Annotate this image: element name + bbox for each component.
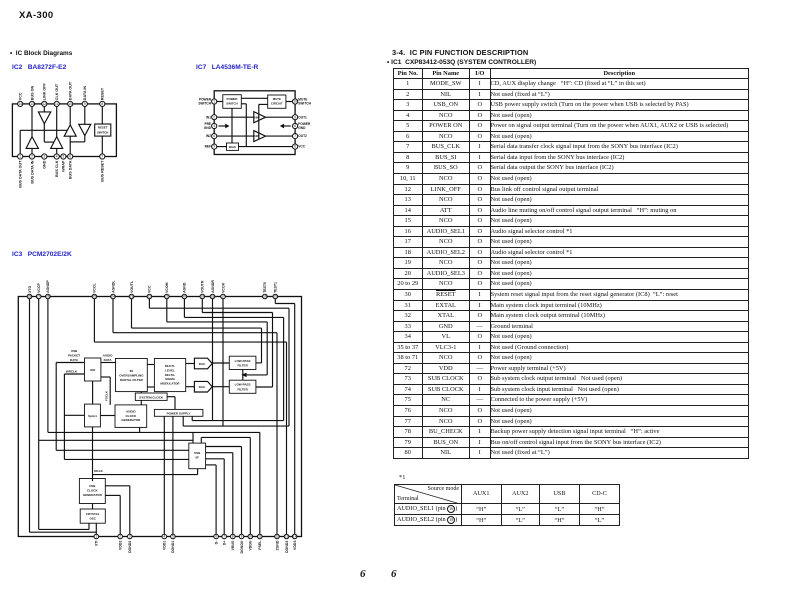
svg-text:18: 18: [211, 295, 215, 299]
svg-text:LOW-PASS: LOW-PASS: [235, 359, 251, 363]
svg-text:AUDIO: AUDIO: [126, 409, 136, 413]
svg-text:CLK OUT: CLK OUT: [55, 83, 59, 100]
svg-text:DIGITAL FILTER: DIGITAL FILTER: [120, 378, 144, 382]
wire to pin VDD2: [119, 495, 121, 536]
svg-text:AGNDL: AGNDL: [111, 280, 115, 293]
wire USB IF out 3: [206, 458, 225, 460]
IC2 pin 13 (BUS ON): [29, 101, 34, 106]
IC3 pin 5 (DGND1): [171, 534, 176, 539]
svg-text:VOUTR: VOUTR: [201, 280, 205, 293]
wire power switch to mute circuit: [241, 97, 267, 99]
wire SIO audio data to filter: [101, 362, 116, 364]
wire buffer C to pin 6: [69, 136, 71, 156]
svg-text:DGND3: DGND3: [285, 541, 289, 553]
svg-text:SWITCH: SWITCH: [226, 102, 237, 106]
low-pass filter 2 block: [229, 380, 256, 393]
IC3 pin 16 (TEST0): [263, 294, 268, 299]
svg-text:15: 15: [274, 295, 278, 299]
wire pin12 LINK OFF to inverter: [43, 104, 45, 112]
svg-text:I/F: I/F: [195, 455, 199, 459]
svg-text:PACKET: PACKET: [68, 353, 80, 357]
svg-text:6: 6: [294, 145, 296, 149]
svg-text:12: 12: [275, 535, 279, 539]
svg-text:8X: 8X: [130, 369, 134, 373]
svg-text:VCC: VCC: [148, 285, 152, 293]
wire SpAct to USB clock gen: [92, 427, 94, 481]
buffer D (down) pin 9: [79, 124, 91, 135]
svg-text:14: 14: [293, 535, 297, 539]
svg-text:RESET: RESET: [98, 126, 108, 130]
wire USB IF out 4: [206, 464, 217, 466]
wire VCCR drop to power supply net: [222, 297, 224, 427]
wire USB clock gen out B: [105, 494, 120, 496]
svg-text:2: 2: [31, 155, 33, 159]
wire SIO to SpAct: [92, 381, 94, 404]
wire VOUTL vertical: [261, 328, 263, 363]
buffer C (up) pins 10/6: [64, 125, 76, 136]
svg-text:WRAP: WRAP: [62, 160, 66, 172]
audio clock generator block: [115, 405, 147, 428]
IC2 pin 3 (GND): [42, 154, 47, 159]
wire MCLK run: [93, 474, 198, 476]
IC3 pin 8 (VBUS): [231, 534, 236, 539]
svg-text:DGND2: DGND2: [128, 541, 132, 553]
svg-text:POWER SUPPLY: POWER SUPPLY: [167, 412, 191, 416]
wire power switch to bias: [231, 108, 233, 143]
svg-text:CIRCUIT: CIRCUIT: [271, 102, 283, 106]
svg-text:FSCLK: FSCLK: [105, 390, 109, 401]
wire buffer A to pin 2: [31, 148, 33, 156]
IC3 pin 7 (D+): [222, 534, 227, 539]
wire to pin DGNDU: [241, 447, 243, 537]
crystal osc block: [80, 509, 105, 523]
wire system clock to power supply run: [167, 396, 175, 398]
wire USB IF top stub A: [192, 432, 194, 443]
svg-text:XTI: XTI: [95, 541, 99, 546]
svg-text:D+: D+: [223, 541, 227, 546]
wire VCC drop: [148, 297, 150, 309]
svg-text:IN1: IN1: [206, 115, 211, 119]
op-amp AMP1: [254, 112, 266, 123]
inverter (down) from pin 12: [38, 112, 50, 124]
IC7 pin 6 (VCC): [293, 144, 298, 149]
svg-text:USB: USB: [194, 451, 201, 455]
svg-text:TEST0: TEST0: [263, 282, 267, 293]
svg-text:25: 25: [93, 295, 97, 299]
wire AGNDL run: [113, 332, 277, 334]
wire VCOM to LPF link: [246, 374, 268, 376]
multi-level delta-sigma modulator block: [154, 359, 185, 392]
svg-text:21: 21: [165, 295, 169, 299]
svg-text:22: 22: [148, 295, 152, 299]
svg-text:VDD3: VDD3: [293, 541, 297, 550]
svg-text:BUS ON: BUS ON: [30, 86, 34, 101]
svg-text:8: 8: [101, 102, 103, 106]
wire TEST1 drop: [274, 297, 276, 304]
wire AGND vertical: [283, 317, 285, 420]
svg-text:BUS CLK: BUS CLK: [55, 160, 59, 177]
svg-text:10: 10: [249, 535, 253, 539]
wire VOUTL run: [132, 327, 262, 329]
IC2 pin 11 (CLK OUT): [54, 101, 59, 106]
IC3 pin 4 (VDD1): [162, 534, 167, 539]
svg-text:5: 5: [63, 155, 65, 159]
IC3 pin 2 (VDD2): [118, 534, 123, 539]
wire AGNDP drop: [47, 297, 49, 433]
8X oversampling digital filter block: [116, 359, 148, 392]
svg-text:GND: GND: [204, 126, 212, 130]
wire inverter output down: [43, 124, 45, 142]
wire pin2 IN1 to amp1: [214, 116, 254, 118]
svg-text:1: 1: [213, 100, 215, 104]
wire horizontal bus node: [20, 129, 67, 131]
wire USB clock gen to crystal osc: [92, 504, 94, 510]
svg-text:DELTA-: DELTA-: [165, 373, 176, 377]
IC3 pin 19 (VOUTR): [200, 294, 205, 299]
svg-text:AGNDP: AGNDP: [46, 280, 50, 293]
svg-text:AGNDR: AGNDR: [211, 280, 215, 293]
wire VOUTR run: [202, 312, 272, 314]
wire VCC to power supply: [183, 425, 289, 427]
wire pin5 REF to bias: [214, 146, 226, 148]
svg-text:DATA IN: DATA IN: [83, 86, 87, 101]
SIO block: [85, 358, 101, 381]
wire mute control vertical to amps: [258, 104, 260, 139]
svg-text:FILTER: FILTER: [237, 363, 248, 367]
svg-text:MODULATOR: MODULATOR: [160, 382, 180, 386]
svg-text:2: 2: [213, 115, 215, 119]
wire power supply stub B: [191, 416, 193, 420]
svg-text:USB: USB: [89, 484, 96, 488]
svg-text:SWITCH: SWITCH: [298, 102, 311, 106]
IC2 pin 10 (DATA OUT): [68, 101, 73, 106]
svg-text:20: 20: [183, 295, 187, 299]
svg-text:BUS RESET: BUS RESET: [101, 160, 105, 182]
svg-text:DATA: DATA: [70, 358, 79, 362]
wire branch into SpAct: [64, 414, 84, 416]
IC3 pin 20 (AGND): [182, 294, 187, 299]
svg-text:VDD1: VDD1: [163, 541, 167, 550]
DAC 1 block: [194, 358, 212, 369]
buffer A (up) pins 13/2: [26, 137, 38, 149]
svg-text:VCOM: VCOM: [165, 282, 169, 293]
svg-text:CLOCK: CLOCK: [125, 414, 136, 418]
USB clock generator block: [79, 479, 105, 504]
IC3 pin 22 (VCC): [147, 294, 152, 299]
svg-text:CLOCK: CLOCK: [87, 488, 98, 492]
svg-text:9: 9: [241, 535, 243, 539]
wire AGNDL drop: [112, 297, 114, 333]
IC3 pin 25 (VCCL): [92, 294, 97, 299]
svg-text:1: 1: [95, 535, 97, 539]
wire filter to system clock: [140, 392, 142, 393]
DAC 2 block: [194, 381, 212, 392]
wire XTO drop: [29, 297, 31, 533]
IC2 pin 6 (BUS DATA): [68, 154, 73, 159]
svg-text:26: 26: [46, 295, 50, 299]
svg-text:BUS DATA: BUS DATA: [69, 160, 73, 179]
wire MCLK to USB IF: [197, 469, 199, 475]
IC2 pin 7 (BUS RESET): [100, 154, 105, 159]
wire VCC run: [149, 307, 289, 309]
wire WRCLK vertical: [63, 374, 65, 459]
svg-text:POWER: POWER: [227, 97, 239, 101]
power supply block: [154, 409, 203, 416]
IC3 pin 13 (DGND3): [284, 534, 289, 539]
IC3 pin 10 (VDDU): [248, 534, 253, 539]
wire VCC vertical: [288, 308, 290, 426]
IC3 pin 18 (AGNDR): [210, 294, 215, 299]
wire power supply to pin VDD1: [163, 416, 165, 536]
wire crystal osc to pin XTI: [95, 523, 97, 536]
system clock box: [135, 393, 167, 400]
svg-text:4: 4: [213, 134, 215, 138]
wire mute lower stub: [259, 103, 268, 105]
wire LPF1 to LPF2: [242, 370, 244, 381]
wire LPF1 out: [256, 362, 262, 364]
svg-text:23: 23: [130, 295, 134, 299]
IC7 pin 2 (IN1): [212, 115, 217, 120]
wire VOUTR vertical: [272, 313, 274, 388]
wire VCOM run: [167, 321, 267, 323]
power amplifier IC U-IC7 LA4536M-TE-R outline: [214, 91, 295, 155]
svg-text:OVERSAMPLING: OVERSAMPLING: [119, 374, 144, 378]
wire pin4 IN2 to amp2: [214, 135, 254, 137]
svg-text:6: 6: [215, 535, 217, 539]
IC3 pin 11 (PSEL): [258, 534, 263, 539]
svg-text:14: 14: [18, 102, 22, 106]
svg-text:27: 27: [37, 295, 41, 299]
wire AGNDR drop to power supply net: [212, 297, 214, 421]
svg-text:CRYSTAL: CRYSTAL: [86, 512, 100, 516]
wire VCOM vertical: [266, 322, 268, 375]
svg-text:IN2: IN2: [206, 134, 211, 138]
bias block: [227, 143, 239, 150]
svg-text:ZGND: ZGND: [275, 540, 279, 550]
svg-text:24: 24: [111, 295, 115, 299]
svg-text:MULTI-: MULTI-: [165, 364, 175, 368]
arrow at pin8 POWER GND: [284, 125, 291, 127]
IC3 pin 26 (AGNDP): [46, 294, 51, 299]
svg-text:16: 16: [263, 295, 267, 299]
wire power supply to pin DGND1: [172, 416, 174, 536]
wire DAC2 to LPF2: [212, 386, 229, 388]
buffer B (up) pins 11/4: [51, 137, 63, 149]
svg-text:6: 6: [69, 155, 71, 159]
wire VOUTR drop: [201, 297, 203, 313]
svg-text:GND: GND: [43, 160, 47, 169]
svg-text:DGNDU: DGNDU: [240, 540, 244, 553]
IC7 pin 7 (OUT2): [293, 134, 298, 139]
svg-text:19: 19: [201, 295, 205, 299]
wire buffer B to pin 4: [56, 148, 58, 156]
svg-text:VDDU: VDDU: [249, 540, 253, 550]
IC3 pin 21 (VCOM): [165, 294, 170, 299]
IC3 pin 6 (D-): [214, 534, 219, 539]
wire to pin VDDU: [249, 437, 251, 536]
svg-text:10: 10: [293, 100, 297, 104]
svg-text:1: 1: [19, 155, 21, 159]
svg-text:D-: D-: [214, 540, 218, 545]
IC3 pin 27 (VCCP): [36, 294, 41, 299]
IC2 pin 12 (LINK OFF): [42, 101, 47, 106]
op-amp AMP2: [254, 131, 266, 142]
wire system clock to power supply vertical: [174, 397, 176, 410]
svg-text:MCLK: MCLK: [94, 469, 103, 473]
svg-text:2: 2: [119, 535, 121, 539]
wire fsclk vertical to audio clock gen: [109, 377, 111, 405]
svg-text:AMP: AMP: [254, 135, 260, 138]
svg-text:8: 8: [294, 124, 296, 128]
svg-text:9: 9: [294, 115, 296, 119]
IC3 pin 23 (VOUTL): [129, 294, 134, 299]
svg-text:FILTER: FILTER: [237, 387, 248, 391]
wire filter to modulator lower: [147, 386, 154, 388]
wire VOUTL drop: [131, 297, 133, 329]
IC3 pin 14 (VDD3): [292, 534, 297, 539]
wire AGNDP run: [48, 431, 260, 433]
IC3 pin 24 (AGNDL): [111, 294, 116, 299]
svg-text:SIO: SIO: [90, 368, 96, 372]
svg-text:REF: REF: [205, 145, 211, 149]
USB interface block: [189, 443, 206, 469]
svg-text:BUS DATA OUT: BUS DATA OUT: [19, 160, 23, 188]
wire AGND run: [184, 316, 283, 318]
IC7 pin 4 (IN2): [212, 134, 217, 139]
svg-text:XTO: XTO: [28, 285, 32, 292]
svg-text:4: 4: [56, 155, 58, 159]
svg-text:VDD2: VDD2: [119, 541, 123, 550]
svg-text:SWITCH: SWITCH: [198, 102, 211, 106]
wire vcc rail vertical: [245, 104, 247, 147]
svg-text:10: 10: [68, 102, 72, 106]
svg-text:GENERATOR: GENERATOR: [121, 418, 141, 422]
IC3 pin 28 (XTO): [27, 294, 32, 299]
svg-text:AGND: AGND: [183, 282, 187, 293]
wire vertical to pin VDD3: [294, 304, 296, 537]
svg-text:USB: USB: [71, 349, 78, 353]
svg-text:SWITCH: SWITCH: [97, 130, 108, 134]
svg-text:9: 9: [84, 102, 86, 106]
wire USB IF top stub B: [200, 437, 202, 443]
IC7 pin 3 (PRE GND): [212, 123, 217, 128]
svg-text:LEVEL: LEVEL: [165, 368, 175, 372]
svg-text:TEST1: TEST1: [274, 282, 278, 293]
svg-text:DAC: DAC: [199, 362, 206, 366]
wire VCCL drop: [93, 297, 95, 343]
wire bias to pin6 VCC rail: [239, 146, 296, 148]
svg-text:VOUTL: VOUTL: [130, 280, 134, 293]
wire modulator to DAC1: [186, 363, 195, 365]
wire to pin D+: [223, 459, 225, 537]
svg-text:DATA OUT: DATA OUT: [69, 81, 73, 100]
svg-text:28: 28: [28, 295, 32, 299]
SpAct block: [85, 404, 101, 427]
wire pin9 DATA IN to buffer D: [84, 104, 86, 124]
IC3 pin 3 (DGND2): [128, 534, 133, 539]
svg-text:BIAS: BIAS: [229, 145, 236, 149]
wire VCCP drop: [38, 297, 40, 530]
svg-text:8: 8: [232, 535, 234, 539]
IC7 pin 10 (MUTE SWITCH): [293, 99, 298, 104]
svg-text:LOW-PASS: LOW-PASS: [235, 383, 251, 387]
svg-text:5: 5: [172, 535, 174, 539]
wire AGND drop: [183, 297, 185, 318]
svg-text:OUT1: OUT1: [298, 115, 307, 119]
svg-text:17: 17: [221, 295, 225, 299]
wire LPF2 out: [256, 386, 273, 388]
wire USB IF out 1: [206, 446, 242, 448]
wire to pin DGND2: [129, 486, 131, 537]
low-pass filter 1 block: [229, 356, 256, 369]
svg-text:SIGMA: SIGMA: [165, 377, 176, 381]
svg-text:13: 13: [30, 102, 34, 106]
wire to pin VBUS: [232, 453, 234, 537]
wire AGND to power supply: [192, 420, 283, 422]
IC2 pin 2 (BUS DATA IN): [29, 154, 34, 159]
wire VCCP to crystal osc: [88, 523, 90, 529]
wire DAC1 to LPF1: [212, 362, 229, 364]
wire audio clock gen bottom stub: [139, 427, 141, 432]
arrow at pin3 PRE GND: [219, 125, 226, 127]
wire pin8 RESET to reset switch: [101, 104, 103, 124]
svg-text:VCC: VCC: [19, 92, 23, 100]
wire WRCLK to SIO: [64, 373, 84, 375]
svg-text:4: 4: [163, 535, 165, 539]
IC3 pin 1 (XTI): [94, 534, 99, 539]
wire pin13 BUS ON to buffer A apex: [31, 104, 33, 137]
wire TEST1 run: [275, 303, 294, 305]
wire USB packet data run: [56, 449, 189, 451]
wire to pin D-: [215, 465, 217, 537]
IC3 pin 9 (DGNDU): [239, 534, 244, 539]
svg-text:WRCLK: WRCLK: [66, 369, 78, 373]
wire USB IF out 2: [206, 452, 233, 454]
wire USB packet data to SIO: [56, 362, 84, 364]
svg-text:DAC: DAC: [199, 385, 206, 389]
IC3 pin 17 (VCCR): [221, 294, 226, 299]
USB DAC IC U-IC3 PCM2702E/2K outline: [18, 297, 301, 537]
svg-text:11: 11: [55, 102, 59, 106]
IC2 pin 5 (WRAP): [61, 154, 66, 159]
svg-text:OUT2: OUT2: [298, 134, 307, 138]
svg-text:MUTE: MUTE: [273, 97, 281, 101]
wire power supply stub A: [182, 416, 184, 426]
svg-text:VBUS: VBUS: [231, 540, 235, 550]
wire node to pin 1: [19, 130, 21, 156]
svg-text:SYSTEM CLOCK: SYSTEM CLOCK: [139, 395, 164, 399]
svg-text:7: 7: [223, 535, 225, 539]
svg-text:13: 13: [285, 535, 289, 539]
IC2 pin 9 (DATA IN): [82, 101, 87, 106]
wire VCCP run: [39, 528, 89, 530]
wire VCOM drop: [166, 297, 168, 322]
wire WRCLK run: [64, 458, 188, 460]
svg-text:BUS DATA IN: BUS DATA IN: [30, 160, 34, 183]
wire VCCL vertical to pin DGND3: [286, 342, 288, 536]
wire pin1 to power switch: [214, 101, 223, 103]
svg-text:GND: GND: [298, 126, 306, 130]
wire pin11 CLK OUT to buffer B apex: [56, 104, 58, 137]
wire reset switch to pin 7: [101, 136, 103, 156]
wire AGNDL vertical to pin ZGND: [276, 333, 278, 537]
svg-text:PSEL: PSEL: [258, 540, 262, 550]
IC7 pin 9 (OUT1): [293, 115, 298, 120]
IC2 pin 1 (BUS DATA OUT): [18, 154, 23, 159]
svg-text:AUDIO: AUDIO: [103, 354, 113, 358]
wire system clock to audio clock gen: [140, 400, 142, 405]
op-amp / bus interface IC U-IC2 BA8272F-E2 outline: [12, 104, 116, 157]
